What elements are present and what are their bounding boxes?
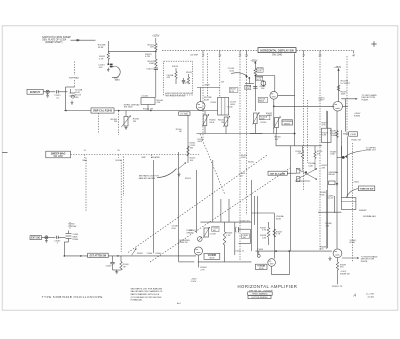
node R1021/R1022 junction (155, 50, 157, 52)
svg-text:BEAM CRT: BEAM CRT (366, 149, 377, 152)
svg-text:OUTLINE AND NOTES SHOWN: OUTLINE AND NOTES SHOWN (131, 296, 162, 299)
resistor R1057 column (267, 228, 270, 238)
svg-text:TYPE 545B/546B OSCILLOSCOPE: TYPE 545B/546B OSCILLOSCOPE (42, 295, 103, 299)
boxed label DC BAL (179, 112, 190, 116)
tube V1084 (333, 249, 342, 258)
svg-text:(C1055 .27: (C1055 .27 (235, 251, 245, 253)
svg-text:+350V: +350V (251, 60, 258, 62)
junction mid rail (294, 133, 296, 135)
svg-text:(SWEEP START): (SWEEP START) (45, 41, 63, 44)
svg-text:47K: 47K (150, 47, 154, 49)
svg-text:C1023: C1023 (146, 69, 153, 71)
svg-text:+350V: +350V (204, 85, 211, 87)
rail x=341.3 (340, 130, 342, 158)
svg-text:IN MANUAL.: IN MANUAL. (131, 299, 144, 302)
dashed link ext atten (69, 222, 71, 230)
svg-text:SWP CAL R1043: SWP CAL R1043 (93, 110, 113, 113)
svg-text:C1025: C1025 (182, 82, 188, 84)
svg-text:R1050 2M: R1050 2M (178, 242, 187, 244)
svg-text:LETTER SERIES: LETTER SERIES (251, 297, 268, 299)
switch bus dashed line (162, 49, 258, 51)
svg-text:C1068: C1068 (257, 249, 264, 251)
wire V1084 cathode down (337, 258, 339, 262)
tube V1013B (196, 102, 205, 111)
mag switch dashed bus (71, 154, 201, 156)
svg-text:-150V: -150V (191, 281, 197, 283)
wire input (43, 91, 55, 93)
svg-text:4.7K: 4.7K (262, 230, 267, 232)
ext atten network box (88, 253, 109, 257)
rail x=327.5 (327, 111, 329, 248)
svg-text:R1082 1M: R1082 1M (352, 140, 362, 142)
svg-text:FIRST MARKED: FIRST MARKED (252, 293, 268, 296)
resistor R1056 (224, 222, 226, 232)
svg-text:SW 1040: SW 1040 (124, 107, 134, 109)
potentiometer R1051 swp-cal (204, 228, 209, 237)
svg-text:REGIS: REGIS (329, 174, 336, 176)
svg-text:SWP: SWP (141, 157, 146, 159)
gang linkage dashed diagonal 3 (200, 134, 225, 195)
resistor R1010 (107, 41, 109, 53)
svg-text:.0056: .0056 (230, 104, 236, 106)
ext input terminal (45, 236, 48, 239)
svg-text:X5: X5 (117, 150, 119, 152)
switch dashed drop d (123, 157, 125, 197)
wire plate bus y=213 (252, 212, 275, 214)
svg-text:C1064: C1064 (147, 253, 154, 255)
svg-text:HORIZONTAL AMPLIFIER: HORIZONTAL AMPLIFIER (238, 284, 298, 289)
svg-text:B INPUT: B INPUT (30, 90, 41, 94)
svg-text:HORIZONTAL DISPLAY SW: HORIZONTAL DISPLAY SW (260, 48, 294, 52)
svg-text:.047: .047 (240, 175, 244, 177)
wire vertical x=153.5 (153, 160, 155, 253)
boxed label V1064B (255, 264, 267, 269)
svg-text:C1060 .001: C1060 .001 (240, 220, 250, 222)
svg-text:PLATE: PLATE (362, 98, 369, 101)
resistor R1025 (175, 68, 177, 72)
ground under pot (125, 126, 127, 128)
svg-text:8.2K: 8.2K (258, 71, 263, 73)
switch section dashed vertical 1A (202, 53, 204, 140)
plate drop to C1082 (344, 99, 346, 132)
potentiometer R1030 (204, 111, 206, 115)
node R1045 plate junction (255, 75, 257, 77)
svg-text:100K: 100K (209, 122, 214, 124)
potentiometer R1035 (254, 113, 258, 124)
svg-text:SWEEP MAG: SWEEP MAG (51, 152, 66, 155)
resistor R1055 (314, 146, 316, 152)
switch dashed drop e (85, 158, 87, 213)
switch section dashed vertical 3B (319, 53, 321, 250)
wire vertical x=229 (228, 199, 230, 222)
switch wiper arrow ext (132, 248, 137, 255)
resistor R1072 (337, 85, 340, 91)
resistor R1021 (155, 44, 158, 51)
svg-text:C1063: C1063 (106, 266, 112, 268)
svg-text:TIME/CM SW: TIME/CM SW (360, 189, 374, 191)
capacitor C1025 (183, 78, 185, 80)
tube V1060B (194, 247, 202, 255)
svg-text:1M: 1M (179, 131, 182, 133)
wire from R1010 to rail (108, 50, 156, 52)
svg-text:R1062: R1062 (137, 253, 143, 255)
svg-text:100K: 100K (260, 118, 265, 120)
svg-text:560K: 560K (198, 141, 203, 143)
svg-text:22K: 22K (326, 225, 330, 227)
svg-text:C1049: C1049 (210, 234, 216, 236)
binder tick mark at left page edge (2, 152, 7, 154)
svg-text:4.7M: 4.7M (145, 56, 150, 58)
svg-text:VALUES AND S/N CHANGES OF: VALUES AND S/N CHANGES OF (131, 290, 164, 293)
tube V1074 (333, 102, 343, 112)
boxed label R1032 (229, 88, 238, 93)
ground ext network (113, 269, 122, 271)
wire bus continue (114, 110, 218, 112)
resistor R1081 (336, 131, 339, 138)
wire vertical x=254.5 (254, 196, 256, 225)
ground under tube plate (71, 101, 73, 103)
input terminal (46, 90, 49, 93)
wire vertical x=212.8 (212, 160, 214, 222)
wire sawtooth feed with arrow (71, 39, 96, 41)
svg-text:PLATE: PLATE (361, 260, 368, 263)
svg-text:NORMAL ADJ: NORMAL ADJ (363, 215, 376, 218)
wire DC BAL to R1051 (187, 115, 189, 141)
wire cathode down (273, 99, 275, 133)
wire V1064B cathode loop (271, 266, 273, 274)
wire plate output right (278, 94, 295, 96)
potentiometer R1046 (261, 81, 266, 86)
svg-text:-150V: -150V (191, 278, 197, 280)
svg-text:8-50: 8-50 (230, 71, 235, 73)
switch label box HORIZONTAL DISPLAY (258, 48, 296, 53)
svg-text:DC SHIFT: DC SHIFT (341, 83, 351, 85)
switch section dashed vertical 3A (303, 53, 305, 190)
svg-text:2.7K: 2.7K (200, 269, 205, 271)
title first box (248, 292, 273, 295)
svg-text:6DJ8: 6DJ8 (259, 268, 264, 270)
node sweep-cal junction (107, 63, 109, 65)
svg-text:DISPLAY: DISPLAY (69, 225, 78, 228)
svg-text:4.7K: 4.7K (99, 58, 104, 60)
svg-text:100K: 100K (149, 63, 155, 65)
wire grid up (200, 88, 202, 102)
svg-text:SEE PARTS LIST FOR EARLIER: SEE PARTS LIST FOR EARLIER (131, 287, 163, 290)
svg-text:MAG: MAG (83, 159, 88, 162)
svg-text:1M: 1M (221, 81, 224, 83)
resistor R1045 (254, 69, 257, 76)
svg-text:R1089 2.7K: R1089 2.7K (332, 286, 343, 288)
svg-text:x10 SWP: x10 SWP (190, 55, 199, 57)
dashed link to mag switch (74, 62, 76, 76)
svg-text:REGIS.: REGIS. (284, 123, 291, 125)
svg-text:SW 1050: SW 1050 (53, 156, 63, 158)
wire cathode V1060B (197, 255, 199, 267)
arrowhead on rail (336, 183, 338, 186)
switch section dashed vertical 2B (246, 53, 248, 215)
svg-text:10K: 10K (189, 232, 193, 234)
boxed label C1061 (242, 234, 250, 239)
boxed label R1049 (212, 226, 219, 231)
wire main input bus (64, 110, 91, 112)
capacitor C1011 (55, 90, 57, 93)
svg-text:DC BAL: DC BAL (181, 113, 189, 116)
cathode box R1076 (322, 128, 332, 142)
svg-text:SW 1040: SW 1040 (272, 53, 283, 56)
svg-text:R1085: R1085 (354, 115, 361, 117)
svg-text:R1065: R1065 (156, 253, 162, 255)
junction ring (257, 255, 260, 258)
capacitor C1023 (155, 66, 157, 68)
svg-text:6CB6: 6CB6 (350, 242, 356, 244)
svg-text:12BY7: 12BY7 (318, 100, 325, 102)
curve time-base to pickoff (346, 189, 358, 198)
output wire to left deflection plate (341, 98, 357, 100)
switch dashed drop a (98, 113, 100, 133)
supply +350V arrow for V1074 (338, 68, 340, 71)
svg-text:15K: 15K (275, 139, 279, 141)
svg-text:R1053: R1053 (185, 178, 191, 180)
sweep-cal network box (91, 108, 114, 113)
svg-text:6DJ8: 6DJ8 (209, 257, 215, 259)
svg-text:SWP/MAG: SWP/MAG (69, 76, 79, 79)
wire C1040 to bus (147, 105, 149, 111)
svg-text:R1024: R1024 (172, 66, 179, 68)
wire ext input (42, 236, 56, 238)
wire cap to ext tube (58, 236, 65, 238)
wire vertical x=220.9 (220, 199, 222, 222)
svg-text:NORM: NORM (116, 160, 122, 162)
svg-text:6.8K: 6.8K (322, 135, 327, 137)
svg-text:100K: 100K (330, 154, 335, 156)
svg-text:1.5K: 1.5K (226, 235, 231, 237)
wire vertical x=178.7 (178, 152, 180, 262)
ground below R1010 (107, 68, 109, 70)
delay trimmer box C1087 (342, 198, 356, 210)
boxed label sweep magnifier sw (46, 151, 71, 158)
output wire to right deflection plate (342, 257, 359, 259)
terminal box P1055a (296, 169, 300, 174)
wire h bus y=222.1 (200, 221, 251, 223)
boxed label R1044 (245, 85, 251, 89)
boxed label time-base selector (359, 186, 375, 191)
svg-text:R1056: R1056 (248, 161, 254, 163)
svg-text:6DJ8: 6DJ8 (276, 218, 282, 220)
svg-text:4.5-25: 4.5-25 (327, 198, 334, 200)
svg-text:270K: 270K (245, 88, 250, 90)
svg-text:+350V: +350V (353, 182, 360, 184)
wire to V1074 grid (274, 105, 335, 107)
svg-text:EXT ATTEN SW: EXT ATTEN SW (90, 255, 107, 258)
svg-text:R1026: R1026 (186, 72, 192, 74)
svg-text:R1089 1M: R1089 1M (340, 274, 350, 276)
svg-text:PARTS MARKED WITH BLUE: PARTS MARKED WITH BLUE (131, 293, 160, 296)
resistor R1022 (155, 51, 157, 59)
svg-text:X1: X1 (84, 150, 86, 152)
svg-text:8.2K: 8.2K (230, 91, 235, 93)
boxed label swp mag regis (282, 120, 293, 125)
wire ext bus continue (108, 255, 196, 257)
switch section dashed vertical 3A2 (307, 100, 309, 163)
capacitor C1044 (253, 86, 257, 88)
svg-text:EARLIER VALUES: EARLIER VALUES (139, 177, 156, 180)
svg-text:+225V: +225V (152, 35, 159, 38)
tube V1013A grid/cathode bars (66, 86, 75, 88)
svg-text:HORIZ DISPLAY SW SHOWN IN: HORIZ DISPLAY SW SHOWN IN (165, 92, 193, 95)
wire cap to tube grid (58, 91, 67, 93)
rail drop x=294.6 (294, 53, 296, 145)
svg-text:100K: 100K (331, 135, 336, 137)
svg-text:39.8K: 39.8K (98, 47, 104, 49)
svg-text:DELAYED: DELAYED (151, 156, 161, 159)
svg-text:+350V: +350V (334, 67, 341, 69)
boxed label V1014 (258, 98, 268, 103)
node main output junction (342, 156, 345, 159)
switch section dashed vertical 1B (219, 53, 221, 97)
svg-text:1M: 1M (114, 121, 117, 123)
ground under pot R1052 (178, 172, 180, 174)
potentiometer R1052 cluster (187, 141, 189, 163)
trimmer pot C1049 (198, 237, 203, 242)
small box C1083 (329, 181, 335, 185)
registration cross mark (371, 43, 376, 45)
tube V1014 (270, 91, 278, 99)
svg-text:R1035: R1035 (261, 122, 267, 124)
rail solid x=347.3 (346, 137, 348, 198)
svg-text:220K: 220K (241, 157, 246, 159)
boxed label set gain (268, 171, 287, 175)
wire +225V rail (155, 38, 157, 44)
switch section dashed vertical 2A (239, 53, 241, 260)
svg-text:47K: 47K (157, 102, 161, 104)
trimmer box C1082 (349, 132, 358, 136)
curve from note to pot (157, 169, 177, 178)
wire driver bus y=251.1 (255, 250, 332, 252)
boxed label V1060B (204, 253, 220, 259)
wire grid feed V1084 (318, 211, 341, 213)
svg-text:4.7K: 4.7K (322, 125, 327, 127)
delay network box (218, 98, 229, 116)
svg-text:4-6 4A: 4-6 4A (368, 295, 375, 298)
switch section dashed vertical 4A (352, 143, 354, 262)
wire vertical x=251.5 (251, 180, 253, 251)
svg-text:R1064: R1064 (73, 239, 80, 241)
svg-text:100K: 100K (341, 94, 346, 96)
svg-text:2M: 2M (133, 121, 136, 123)
svg-text:1.8K: 1.8K (262, 237, 267, 239)
resistor R1063 to ground (120, 256, 122, 262)
wire feedback loop (239, 228, 251, 230)
V1064A labels (273, 213, 275, 259)
svg-text:MAG.: MAG. (115, 79, 121, 82)
potentiometer R1031 (224, 117, 228, 126)
switch dashed drop c (120, 160, 122, 252)
ground at ext terminal (45, 239, 47, 241)
rail x=290.6 drop (290, 146, 292, 251)
svg-text:R1014: R1014 (211, 102, 218, 104)
switch contact ticks (202, 50, 204, 53)
capacitor C1063 to ground (112, 256, 114, 262)
resistor R1067 (273, 229, 276, 237)
svg-text:100K: 100K (308, 166, 313, 168)
svg-text:1M: 1M (221, 122, 224, 124)
ground at input terminal (47, 93, 49, 95)
wire h bus y=261.9 (198, 261, 252, 263)
title second box (248, 296, 271, 299)
wire plate feed V1014 (274, 76, 276, 92)
divider network dashed box (164, 61, 193, 95)
svg-text:1M: 1M (123, 267, 126, 269)
input jack label box (27, 89, 43, 94)
svg-text:4.7K: 4.7K (276, 234, 281, 236)
rail x=337 down to V1084 (336, 111, 338, 249)
svg-text:6AU6: 6AU6 (259, 100, 265, 103)
svg-text:6DJ8: 6DJ8 (204, 99, 210, 101)
SWP/CAL pot arc (112, 66, 120, 78)
svg-text:270K: 270K (320, 194, 325, 196)
wire vertical x=257.5 (257, 196, 259, 255)
svg-text:T 1040: T 1040 (227, 107, 233, 109)
tube V1063 bars (66, 233, 72, 235)
svg-text:SWEEP: SWEEP (359, 210, 367, 212)
feedback curve from deflection (345, 151, 365, 157)
wire ext bus y=255.9 (64, 255, 87, 257)
svg-text:56K: 56K (75, 97, 79, 99)
terminal box P1055b (296, 177, 300, 182)
capacitor C1062 (55, 236, 57, 239)
switch dashed drop b (118, 111, 120, 135)
svg-text:.033: .033 (166, 77, 170, 79)
tube V1064B (268, 259, 276, 267)
ext horiz input box (30, 236, 42, 240)
svg-text:JL+2 6B: JL+2 6B (366, 294, 374, 296)
svg-text:EXT SIG: EXT SIG (31, 238, 40, 240)
potentiometer R1091 (124, 116, 128, 126)
rails into V1084 grid (326, 190, 328, 249)
gang linkage dashed diagonal 1 (128, 155, 268, 253)
wire rail to interconnect (275, 134, 277, 146)
wire pot to bus (125, 111, 127, 117)
svg-text:C1082: C1082 (350, 134, 357, 136)
switch section dashed vertical stub (206, 53, 208, 97)
svg-text:EXT HORIZ POSITION: EXT HORIZ POSITION (166, 95, 186, 97)
ground at V1084 grid (329, 257, 331, 259)
boxed label C1045 (256, 76, 263, 80)
crossed wiper arrows (297, 169, 318, 180)
wire pot row bus (197, 133, 295, 135)
svg-text:A: A (353, 293, 357, 298)
gang linkage dashed diagonal 2 (150, 168, 290, 262)
variable capacitor C1060 (234, 222, 236, 255)
resistor R1054 (302, 146, 304, 151)
svg-text:4.7-3: 4.7-3 (257, 79, 261, 81)
wire vertical x=196.5 (196, 170, 198, 233)
resistor R1026 (188, 74, 190, 77)
svg-text:.047: .047 (242, 237, 246, 239)
potentiometer R1048 vernier (275, 118, 279, 128)
